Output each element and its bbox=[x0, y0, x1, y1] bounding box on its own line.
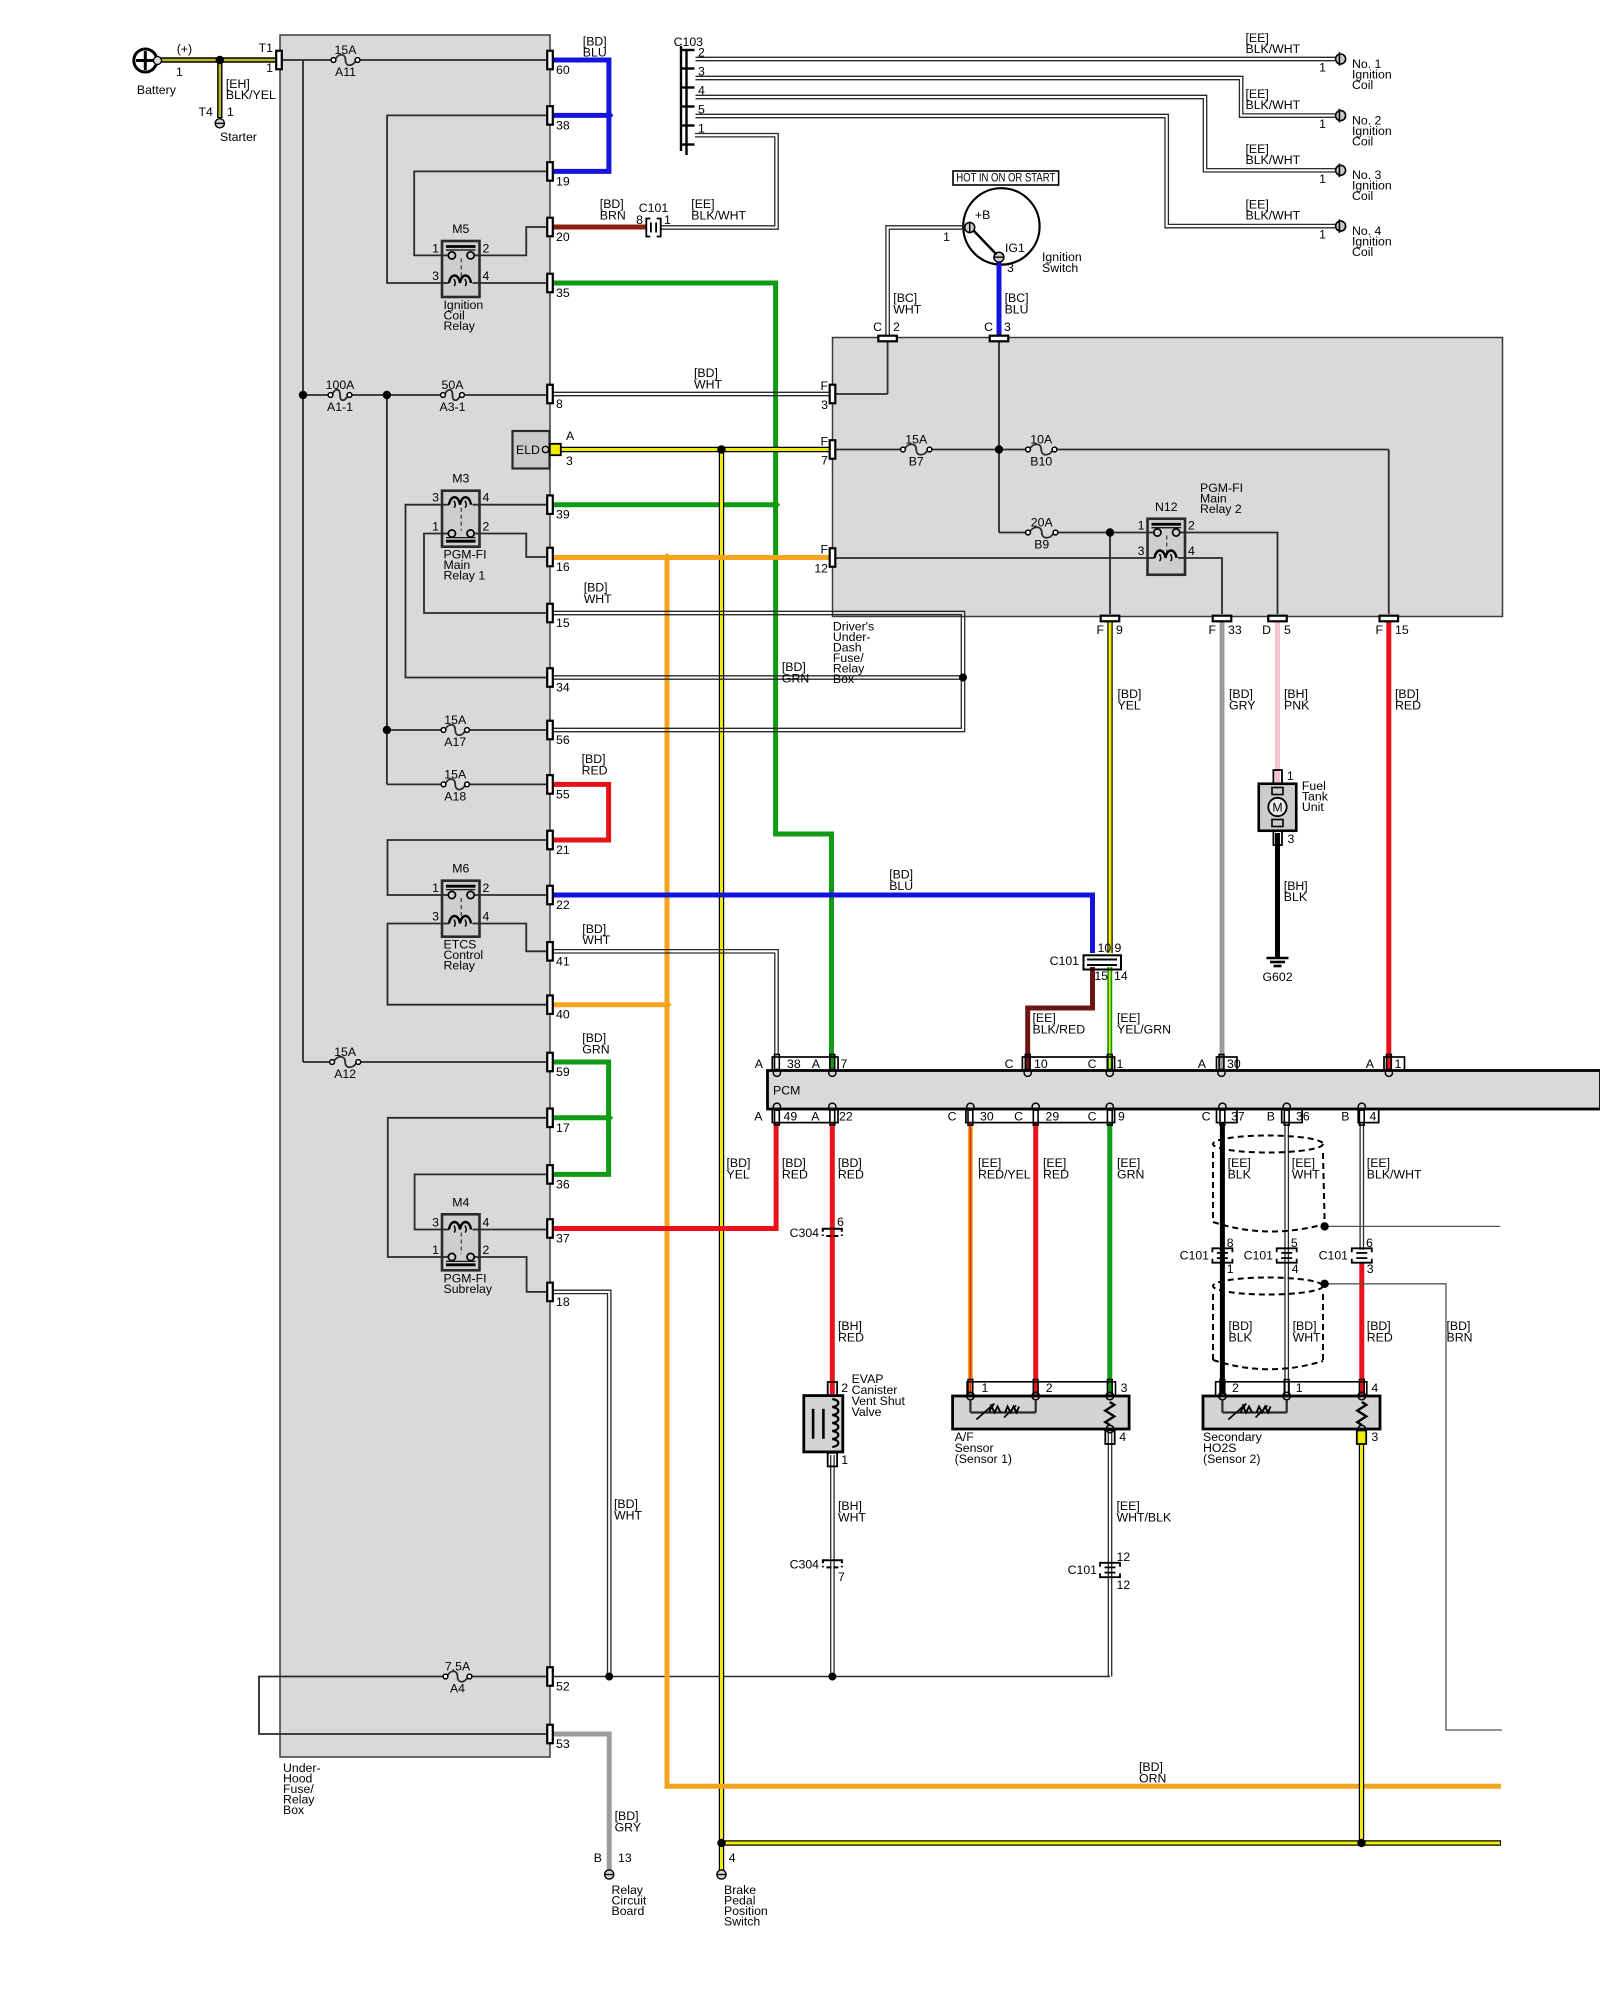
brake pedal switch terminal 4 bbox=[717, 1870, 726, 1879]
PCM box bbox=[768, 1071, 1600, 1110]
svg-text:13: 13 bbox=[618, 1851, 632, 1865]
svg-text:20A: 20A bbox=[1031, 516, 1054, 530]
svg-text:A4: A4 bbox=[450, 1682, 465, 1696]
junction dots 100A row bbox=[299, 391, 307, 399]
svg-text:D: D bbox=[1262, 623, 1271, 637]
junction diamond orange 16 bbox=[662, 553, 671, 562]
wire M6 pin3 to 40 bbox=[388, 924, 548, 1005]
svg-text:C: C bbox=[873, 320, 882, 334]
shield drain lower / BD BRN line bbox=[1325, 1284, 1502, 1730]
connector C304 7 bbox=[823, 1560, 842, 1567]
svg-text:2: 2 bbox=[841, 1381, 848, 1395]
svg-text:9: 9 bbox=[1116, 623, 1123, 637]
svg-text:Coil: Coil bbox=[1352, 189, 1373, 203]
junction dot N12 pin1 row bbox=[1106, 528, 1114, 536]
wire BD BLU 60-38-19 bbox=[553, 60, 609, 171]
svg-text:BLK: BLK bbox=[1284, 890, 1308, 904]
terminal 53 bbox=[547, 1725, 553, 1744]
svg-text:17: 17 bbox=[556, 1121, 570, 1135]
svg-text:12: 12 bbox=[1117, 1578, 1131, 1592]
svg-text:3: 3 bbox=[432, 491, 439, 505]
svg-text:3: 3 bbox=[432, 269, 439, 283]
terminal 37 bbox=[547, 1219, 553, 1238]
svg-text:35: 35 bbox=[556, 286, 570, 300]
junction diamond blue bbox=[604, 111, 613, 120]
svg-text:1: 1 bbox=[1138, 519, 1145, 533]
svg-text:A: A bbox=[1366, 1057, 1375, 1071]
terminal 20 bbox=[547, 218, 553, 237]
svg-text:1: 1 bbox=[1296, 1381, 1303, 1395]
fuse 50A A3-1 bbox=[445, 390, 461, 401]
svg-text:1: 1 bbox=[698, 122, 705, 136]
svg-text:C: C bbox=[1014, 1110, 1023, 1124]
svg-text:F: F bbox=[1096, 623, 1104, 637]
terminal 52 bbox=[547, 1667, 553, 1686]
HO2S pin 3 terminal bbox=[1357, 1430, 1366, 1444]
svg-text:34: 34 bbox=[556, 681, 570, 695]
svg-text:1: 1 bbox=[227, 105, 234, 119]
svg-text:WHT: WHT bbox=[584, 592, 612, 606]
relay M5 ignition coil relay bbox=[442, 241, 480, 297]
svg-text:YEL/GRN: YEL/GRN bbox=[1117, 1022, 1171, 1036]
svg-text:Coil: Coil bbox=[1352, 135, 1373, 149]
svg-text:3: 3 bbox=[432, 910, 439, 924]
svg-text:Switch: Switch bbox=[724, 1915, 760, 1929]
svg-text:4: 4 bbox=[483, 491, 490, 505]
svg-text:BRN: BRN bbox=[1447, 1330, 1473, 1344]
terminal F7 bbox=[830, 440, 836, 459]
svg-text:WHT: WHT bbox=[614, 1508, 642, 1522]
wire F9 drop bbox=[1109, 533, 1111, 615]
svg-text:60: 60 bbox=[556, 63, 570, 77]
svg-text:C: C bbox=[1088, 1057, 1097, 1071]
svg-text:15A: 15A bbox=[905, 433, 928, 447]
svg-text:8: 8 bbox=[556, 397, 563, 411]
ground G602 bbox=[1267, 957, 1289, 960]
junction dot white 18/52 bbox=[605, 1673, 613, 1681]
svg-text:BLK/WHT: BLK/WHT bbox=[1367, 1167, 1422, 1181]
svg-text:PCM: PCM bbox=[773, 1084, 800, 1098]
shield upper dashed cylinder bbox=[1213, 1136, 1323, 1153]
svg-text:PNK: PNK bbox=[1284, 698, 1310, 712]
svg-text:(Sensor 2): (Sensor 2) bbox=[1203, 1452, 1260, 1466]
svg-text:1: 1 bbox=[432, 241, 439, 255]
svg-text:Starter: Starter bbox=[220, 130, 257, 144]
svg-text:C: C bbox=[948, 1110, 957, 1124]
wire YEL ELD to F7 bbox=[560, 447, 830, 452]
svg-text:C: C bbox=[1088, 1110, 1097, 1124]
svg-text:19: 19 bbox=[556, 174, 570, 188]
terminal 15 bbox=[547, 604, 553, 623]
connector C101 8/1 bbox=[1212, 1248, 1232, 1262]
wire BD WHT 8 to F3 bbox=[553, 391, 830, 393]
fuse 100A A1-1 bbox=[332, 390, 348, 401]
svg-text:BLK/WHT: BLK/WHT bbox=[1246, 98, 1301, 112]
svg-text:6: 6 bbox=[1366, 1236, 1373, 1250]
ELD unit bbox=[513, 431, 550, 469]
wire BD GRN 59-17-36 bbox=[553, 1062, 609, 1174]
svg-text:A18: A18 bbox=[444, 789, 466, 803]
svg-text:10: 10 bbox=[1098, 941, 1112, 955]
svg-text:40: 40 bbox=[556, 1008, 570, 1022]
terminal 17 bbox=[547, 1109, 553, 1128]
svg-text:F: F bbox=[1208, 623, 1216, 637]
svg-text:55: 55 bbox=[556, 787, 570, 801]
PCM pin A30 top bbox=[1219, 1055, 1224, 1071]
svg-text:B: B bbox=[594, 1851, 602, 1865]
ignition coil bullets bbox=[1336, 54, 1346, 64]
connector C101 8-1 bbox=[646, 219, 660, 237]
svg-text:1: 1 bbox=[1319, 117, 1326, 131]
svg-text:BLK/WHT: BLK/WHT bbox=[1246, 153, 1301, 167]
terminal C3 bbox=[990, 336, 1009, 342]
svg-text:A11: A11 bbox=[335, 65, 356, 79]
PCM pin A1 top bbox=[1387, 1055, 1392, 1071]
svg-text:Relay: Relay bbox=[444, 959, 476, 973]
connector C101 10/15 9/14 bbox=[1084, 955, 1122, 969]
svg-text:1: 1 bbox=[1117, 1057, 1124, 1071]
under-hood fuse/relay box bbox=[280, 35, 550, 1757]
terminal 39 bbox=[547, 495, 553, 514]
svg-text:7: 7 bbox=[838, 1570, 845, 1584]
HOT IN ON OR START box bbox=[953, 171, 1059, 185]
svg-text:1: 1 bbox=[841, 1453, 848, 1467]
driver under-dash fuse/relay box bbox=[833, 338, 1503, 617]
svg-text:16: 16 bbox=[556, 560, 570, 574]
svg-text:A17: A17 bbox=[444, 735, 466, 749]
svg-text:A: A bbox=[812, 1057, 821, 1071]
svg-text:1: 1 bbox=[432, 1243, 439, 1257]
terminal F15 bbox=[1380, 616, 1399, 622]
svg-text:2: 2 bbox=[483, 241, 490, 255]
switch lever bbox=[974, 231, 997, 255]
wire N12 pin4 to F33 bbox=[1185, 558, 1222, 614]
svg-text:WHT/BLK: WHT/BLK bbox=[1117, 1510, 1172, 1524]
wire BC BLU IG1 to C3 bbox=[997, 262, 1002, 335]
svg-text:WHT: WHT bbox=[694, 377, 722, 391]
svg-text:GRN: GRN bbox=[1117, 1167, 1144, 1181]
svg-text:7.5A: 7.5A bbox=[445, 1660, 471, 1674]
svg-text:RED: RED bbox=[782, 1167, 808, 1181]
wire C2 to F3 bbox=[887, 340, 889, 394]
svg-text:Switch: Switch bbox=[1042, 261, 1078, 275]
svg-text:WHT: WHT bbox=[582, 933, 610, 947]
svg-text:1: 1 bbox=[432, 520, 439, 534]
svg-text:5: 5 bbox=[1291, 1236, 1298, 1250]
svg-text:C101: C101 bbox=[1050, 954, 1080, 968]
terminal C2 bbox=[878, 336, 897, 342]
svg-text:41: 41 bbox=[556, 954, 570, 968]
terminal 55 bbox=[547, 775, 553, 794]
PCM pin C30 bottom bbox=[968, 1110, 973, 1126]
relay M3 PGM-FI main relay 1 bbox=[442, 491, 480, 547]
fuse 15A A12 bbox=[334, 1057, 357, 1068]
svg-text:A3-1: A3-1 bbox=[440, 400, 466, 414]
svg-text:Board: Board bbox=[612, 1904, 645, 1918]
svg-text:10: 10 bbox=[1034, 1057, 1048, 1071]
shield lower drain dot bbox=[1320, 1280, 1328, 1288]
svg-text:YEL: YEL bbox=[727, 1167, 750, 1181]
svg-text:A: A bbox=[566, 429, 575, 443]
svg-text:15A: 15A bbox=[335, 43, 358, 57]
svg-text:1: 1 bbox=[266, 61, 273, 75]
svg-text:BLU: BLU bbox=[889, 879, 913, 893]
svg-text:1: 1 bbox=[1227, 1262, 1234, 1276]
svg-text:Unit: Unit bbox=[1302, 800, 1324, 814]
terminal 36 bbox=[547, 1165, 553, 1184]
wire EE BLK/WHT B4 to C101-6 bbox=[1359, 1123, 1361, 1250]
svg-text:15A: 15A bbox=[334, 1045, 357, 1059]
PCM pin A22 bottom bbox=[830, 1110, 835, 1126]
starter terminal T4 bbox=[215, 119, 224, 128]
svg-text:15A: 15A bbox=[444, 767, 467, 781]
svg-text:3: 3 bbox=[1138, 544, 1145, 558]
svg-text:YEL: YEL bbox=[1118, 698, 1141, 712]
svg-text:HOT IN ON OR START: HOT IN ON OR START bbox=[956, 171, 1055, 185]
svg-text:Coil: Coil bbox=[1352, 78, 1373, 92]
svg-text:BLK/YEL: BLK/YEL bbox=[226, 88, 276, 102]
junction diamond orange 40 bbox=[662, 1000, 671, 1009]
PCM pin C1 top bbox=[1107, 1055, 1112, 1071]
terminal 56 bbox=[547, 721, 553, 740]
terminal 34 bbox=[547, 668, 553, 687]
svg-text:C304: C304 bbox=[790, 1558, 820, 1572]
svg-text:N12: N12 bbox=[1155, 500, 1178, 514]
svg-text:C101: C101 bbox=[1319, 1249, 1349, 1263]
PCM pin C10 top bbox=[1025, 1055, 1030, 1071]
svg-text:C101: C101 bbox=[1180, 1249, 1210, 1263]
A/F sensor box bbox=[953, 1396, 1130, 1429]
svg-text:(Sensor 1): (Sensor 1) bbox=[955, 1452, 1012, 1466]
svg-text:Valve: Valve bbox=[852, 1405, 882, 1419]
terminal 21 bbox=[547, 831, 553, 850]
wire M6 pin4 to 41 bbox=[480, 924, 548, 952]
svg-text:Box: Box bbox=[283, 1803, 305, 1817]
EVAP valve pin 1 terminal bbox=[828, 1453, 837, 1467]
wire EE BLK/WHT C101 to C103 pin1 bbox=[661, 137, 775, 226]
svg-text:WHT: WHT bbox=[838, 1510, 866, 1524]
wire N12 pin2 to D5 bbox=[1185, 533, 1278, 615]
svg-text:ELD: ELD bbox=[516, 443, 540, 457]
wire 17 to M4 pin1 bbox=[388, 1118, 547, 1257]
svg-text:WHT: WHT bbox=[1293, 1330, 1321, 1344]
terminal 22 bbox=[547, 886, 553, 905]
terminal F9 bbox=[1101, 616, 1120, 622]
terminal 59 bbox=[547, 1053, 553, 1072]
yellow bottom horizontal bbox=[722, 1840, 1502, 1845]
PCM pin A49 bottom bbox=[775, 1110, 780, 1126]
svg-text:BLK/RED: BLK/RED bbox=[1033, 1022, 1086, 1036]
+B terminal bbox=[965, 223, 975, 233]
svg-text:3: 3 bbox=[1121, 1381, 1128, 1395]
svg-text:7: 7 bbox=[821, 454, 828, 468]
svg-text:M6: M6 bbox=[452, 862, 469, 876]
wire A17 row to 56 bbox=[387, 729, 443, 731]
terminal 60 bbox=[547, 51, 553, 70]
wire EE WHT B36 to HO2S pin1 bbox=[1284, 1123, 1286, 1394]
battery BLK/YEL wire bbox=[156, 57, 282, 62]
svg-text:2: 2 bbox=[483, 520, 490, 534]
svg-text:C101: C101 bbox=[1244, 1249, 1274, 1263]
svg-text:A12: A12 bbox=[334, 1067, 356, 1081]
svg-text:GRY: GRY bbox=[1229, 698, 1255, 712]
svg-text:7: 7 bbox=[841, 1057, 848, 1071]
PCM pin C37 bottom bbox=[1220, 1110, 1225, 1126]
shield lower dashed cylinder bbox=[1213, 1278, 1323, 1295]
wire vertical to A17/A18 bbox=[386, 395, 388, 784]
svg-text:Coil: Coil bbox=[1352, 245, 1373, 259]
svg-text:BLK: BLK bbox=[1229, 1330, 1253, 1344]
svg-text:4: 4 bbox=[729, 1851, 736, 1865]
PCM pin C29 bottom bbox=[1033, 1110, 1038, 1126]
svg-text:G602: G602 bbox=[1262, 970, 1292, 984]
relay N12 PGM-FI main relay 2 bbox=[1148, 519, 1186, 575]
wire 19 to M5 pin1 bbox=[414, 171, 547, 255]
svg-text:+B: +B bbox=[975, 208, 990, 222]
wire M4 pin4 to 37 bbox=[480, 1229, 548, 1231]
svg-text:1: 1 bbox=[1319, 61, 1326, 75]
svg-text:Relay 2: Relay 2 bbox=[1200, 502, 1242, 516]
PCM pin A7 top bbox=[830, 1055, 835, 1071]
svg-text:38: 38 bbox=[556, 118, 570, 132]
svg-text:B7: B7 bbox=[909, 455, 924, 469]
terminal 18 bbox=[547, 1283, 553, 1302]
wire EE RED/YEL C30 to A/F pin1 bbox=[968, 1123, 973, 1394]
relay circuit board terminal B13 bbox=[605, 1870, 614, 1879]
C103 connector bbox=[681, 46, 695, 155]
IG1 terminal bbox=[994, 252, 1004, 262]
svg-text:36: 36 bbox=[556, 1177, 570, 1191]
wire F12 row to N12 pin3 bbox=[836, 557, 1148, 559]
svg-text:4: 4 bbox=[1119, 1430, 1126, 1444]
wire BH BLK fuel tank to G602 bbox=[1275, 833, 1280, 957]
svg-text:50A: 50A bbox=[442, 378, 465, 392]
svg-text:3: 3 bbox=[1007, 261, 1014, 275]
svg-text:10A: 10A bbox=[1030, 433, 1053, 447]
wire A18 row to 55 bbox=[387, 783, 443, 785]
relay M6 ETCS control relay bbox=[442, 881, 480, 937]
svg-text:M: M bbox=[1272, 801, 1282, 815]
terminal 19 bbox=[547, 162, 553, 181]
svg-text:2: 2 bbox=[483, 881, 490, 895]
svg-text:1: 1 bbox=[1319, 172, 1326, 186]
svg-text:1: 1 bbox=[176, 65, 183, 79]
wire M3 pin2 to 16 bbox=[480, 534, 548, 558]
junction diamond green 17 bbox=[604, 1113, 613, 1122]
wire BD ORN 16/F12 bbox=[553, 555, 830, 560]
A/F heater symbol bbox=[969, 1400, 971, 1413]
A/F pin 4 terminal bbox=[1105, 1430, 1114, 1444]
svg-text:100A: 100A bbox=[326, 378, 356, 392]
svg-text:9: 9 bbox=[1118, 1110, 1125, 1124]
svg-text:8: 8 bbox=[1227, 1236, 1234, 1250]
wire F7 fuse row to F15 bbox=[836, 449, 903, 451]
wire A4 row loop to 52/53 bbox=[259, 1677, 547, 1735]
svg-text:RED: RED bbox=[838, 1330, 864, 1344]
svg-text:1: 1 bbox=[432, 881, 439, 895]
ELD terminal A3 (yellow) bbox=[550, 444, 561, 455]
svg-text:M5: M5 bbox=[452, 222, 469, 236]
svg-text:BLU: BLU bbox=[583, 46, 607, 60]
svg-text:Box: Box bbox=[833, 672, 855, 686]
wire BC WHT +B to C2 bbox=[889, 229, 965, 335]
wire A12 row to 59 bbox=[303, 1061, 332, 1063]
battery bbox=[134, 49, 157, 72]
svg-text:A: A bbox=[754, 1110, 763, 1124]
wire C3 down bbox=[998, 340, 1000, 533]
svg-text:BLK/WHT: BLK/WHT bbox=[1246, 42, 1301, 56]
wire M3 pin1 to 15 bbox=[424, 534, 547, 614]
A/F pin3 zigzag bbox=[1105, 1402, 1114, 1425]
svg-text:B: B bbox=[1341, 1110, 1349, 1124]
svg-text:3: 3 bbox=[821, 398, 828, 412]
svg-text:F: F bbox=[820, 435, 828, 449]
svg-text:18: 18 bbox=[556, 1295, 570, 1309]
svg-text:2: 2 bbox=[1188, 519, 1195, 533]
svg-text:37: 37 bbox=[1231, 1110, 1245, 1124]
wire BD YEL HO2S pin3 down bbox=[1359, 1432, 1364, 1843]
svg-text:52: 52 bbox=[556, 1680, 570, 1694]
svg-text:1: 1 bbox=[1319, 228, 1326, 242]
terminal 38 bbox=[547, 106, 553, 125]
svg-text:1: 1 bbox=[1287, 769, 1294, 783]
junction dot white EVAP/52 bbox=[828, 1673, 836, 1681]
svg-text:33: 33 bbox=[1228, 623, 1242, 637]
svg-text:21: 21 bbox=[556, 843, 570, 857]
ignition switch circle bbox=[963, 188, 1039, 264]
svg-text:39: 39 bbox=[556, 508, 570, 522]
fuse 7.5A A4 bbox=[447, 1671, 468, 1682]
svg-text:2: 2 bbox=[893, 320, 900, 334]
yellow vertical to brake pedal switch bbox=[719, 450, 724, 1873]
svg-text:15: 15 bbox=[556, 616, 570, 630]
wire EE BLK C37 to HO2S pin2 bbox=[1220, 1123, 1225, 1394]
wire 52 row horizontal bbox=[553, 1676, 1110, 1678]
svg-text:A: A bbox=[755, 1057, 764, 1071]
svg-text:Battery: Battery bbox=[137, 83, 177, 97]
svg-text:IG1: IG1 bbox=[1005, 241, 1025, 255]
svg-text:RED: RED bbox=[1395, 698, 1421, 712]
svg-text:49: 49 bbox=[784, 1110, 798, 1124]
svg-text:A: A bbox=[1198, 1057, 1207, 1071]
PCM pin B4 bottom bbox=[1359, 1110, 1364, 1126]
wire BD WHT 41 to PCM A38 bbox=[553, 950, 778, 1055]
terminal 16 bbox=[547, 548, 553, 567]
wire BD GRN 39 bbox=[553, 502, 776, 507]
svg-text:30: 30 bbox=[1227, 1057, 1241, 1071]
svg-text:BLK/WHT: BLK/WHT bbox=[1246, 209, 1301, 223]
svg-text:15: 15 bbox=[1094, 969, 1108, 983]
wire EE WHT/BLK A/F pin4 down bbox=[1107, 1432, 1109, 1677]
svg-text:M4: M4 bbox=[452, 1195, 469, 1209]
svg-text:14: 14 bbox=[1114, 969, 1128, 983]
terminal D5 bbox=[1268, 616, 1287, 622]
PCM bottom connector boxes bbox=[772, 1109, 838, 1122]
svg-text:F: F bbox=[820, 379, 828, 393]
svg-text:38: 38 bbox=[787, 1057, 801, 1071]
wire BD BRN 20 to C101 bbox=[553, 225, 646, 230]
wire BH WHT EVAP pin1 down bbox=[830, 1455, 832, 1674]
connector C101 5/4 bbox=[1277, 1248, 1297, 1262]
wire BD BLU 22 to C101 pin10 bbox=[553, 895, 1093, 953]
HO2S sensor box bbox=[1203, 1396, 1380, 1429]
svg-text:C: C bbox=[1005, 1057, 1014, 1071]
wire BH PNK D5 to fuel tank unit bbox=[1275, 621, 1280, 783]
shield drain upper line bbox=[1325, 1225, 1501, 1227]
PCM pin C9 bottom bbox=[1107, 1110, 1112, 1126]
wire 36 to M4 pin3 bbox=[415, 1174, 547, 1229]
wire M4 pin2 to 18 bbox=[480, 1257, 548, 1292]
